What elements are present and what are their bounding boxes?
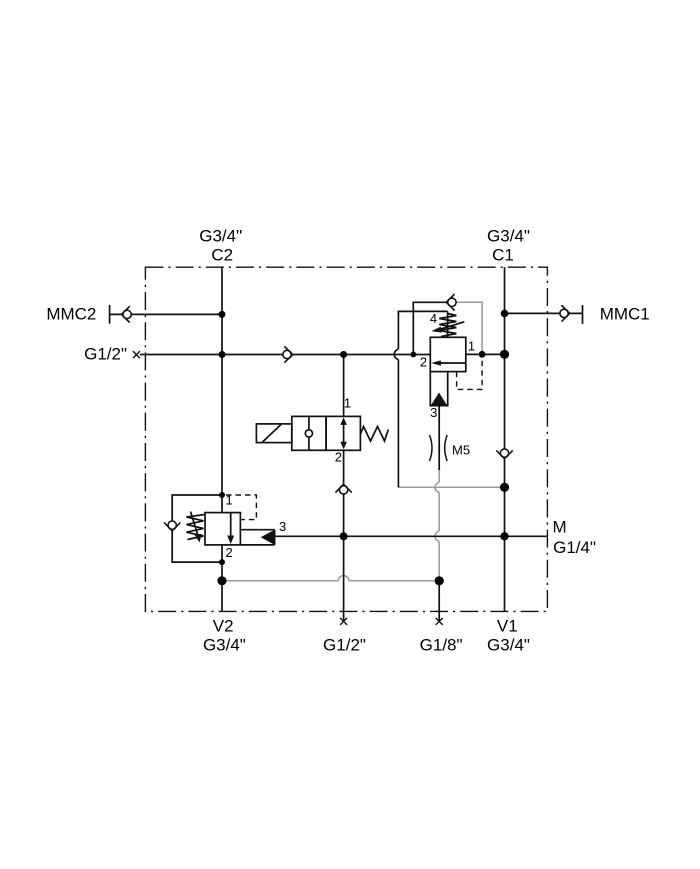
svg-text:3: 3	[430, 405, 437, 420]
svg-text:4: 4	[430, 311, 437, 326]
svg-text:3: 3	[279, 519, 286, 534]
svg-text:2: 2	[420, 354, 427, 369]
svg-text:G3/4": G3/4"	[203, 636, 246, 655]
svg-text:1: 1	[344, 395, 351, 410]
svg-text:G1/2": G1/2"	[323, 636, 366, 655]
svg-text:2: 2	[225, 545, 232, 560]
svg-text:G3/4": G3/4"	[487, 636, 530, 655]
svg-text:1: 1	[225, 493, 232, 508]
svg-text:G3/4": G3/4"	[487, 227, 530, 246]
svg-text:M: M	[553, 518, 567, 537]
svg-text:MMC1: MMC1	[600, 305, 650, 324]
svg-text:V1: V1	[497, 616, 518, 635]
svg-text:C1: C1	[492, 245, 514, 264]
svg-text:MMC2: MMC2	[46, 304, 96, 323]
svg-text:M5: M5	[452, 442, 470, 457]
svg-text:C2: C2	[211, 245, 233, 264]
svg-text:G1/4": G1/4"	[553, 538, 596, 557]
svg-text:G1/8": G1/8"	[420, 636, 463, 655]
svg-text:G3/4": G3/4"	[199, 227, 242, 246]
svg-text:V2: V2	[213, 616, 234, 635]
svg-text:G1/2": G1/2"	[84, 344, 127, 363]
svg-text:1: 1	[468, 339, 475, 354]
svg-text:2: 2	[335, 449, 342, 464]
